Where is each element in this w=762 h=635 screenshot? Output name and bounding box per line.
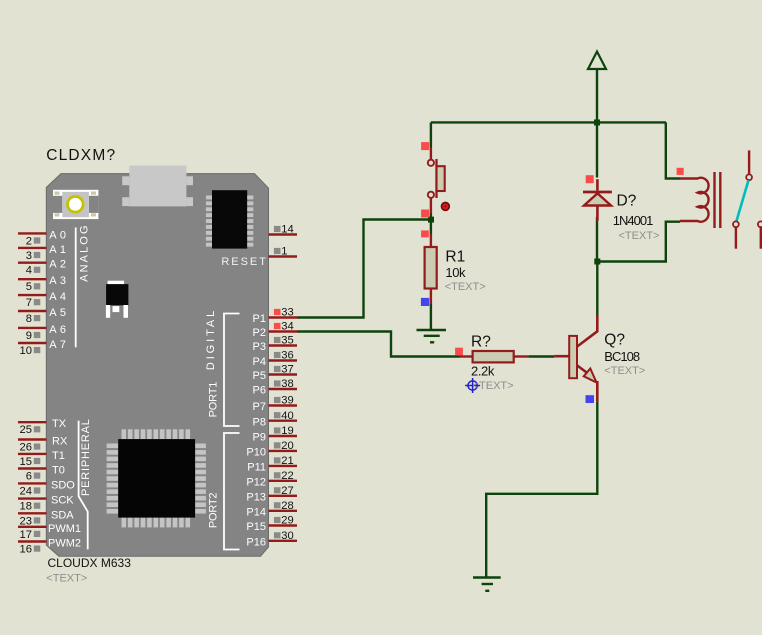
svg-text:SDO: SDO [51,479,75,491]
mcu pin P9 (pin 19) [269,435,298,437]
mcu qfp chip [122,429,127,439]
svg-text:2: 2 [26,235,32,247]
svg-text:T1: T1 [52,450,65,462]
svg-text:<TEXT>: <TEXT> [604,365,645,377]
svg-text:21: 21 [281,455,293,467]
wire rail to pot [430,122,432,147]
mcu pin A3 (pin 5) [18,278,47,280]
svg-text:A4: A4 [49,291,69,303]
mcu pin PWM2 (pin 16) [18,540,47,542]
mcu port1 bracket [224,314,240,427]
svg-text:RX: RX [52,436,68,448]
junction pot bottom [428,217,434,223]
svg-text:ANALOG: ANALOG [78,223,90,281]
svg-text:PORT1: PORT1 [208,382,220,418]
mcu pin P3 (pin 35) [269,344,298,346]
svg-text:<TEXT>: <TEXT> [46,573,87,585]
mcu regulator [108,281,125,285]
svg-text:1: 1 [281,246,287,258]
wire diode bottom [596,217,598,262]
mcu pin A2 (pin 4) [18,262,47,264]
svg-text:22: 22 [281,470,293,482]
svg-text:P8: P8 [253,416,266,428]
svg-text:PORT2: PORT2 [208,493,220,529]
svg-text:CLDXM?: CLDXM? [46,147,116,164]
svg-text:23: 23 [20,515,32,527]
svg-text:SCK: SCK [51,495,74,507]
svg-text:9: 9 [26,330,32,342]
svg-text:P13: P13 [246,491,266,503]
svg-text:PWM2: PWM2 [48,538,81,550]
svg-text:P11: P11 [247,462,266,474]
origin marker R? [465,378,480,393]
mcu analog separator [75,228,77,348]
mcu pin P14 (pin 28) [269,510,298,512]
relay contact common [748,150,750,174]
svg-text:37: 37 [281,364,293,376]
transistor Q? [577,316,597,347]
svg-text:DIGITAL: DIGITAL [205,308,217,370]
svg-text:A3: A3 [49,275,69,287]
wire pot junction to P1 [297,220,431,318]
svg-text:26: 26 [20,442,32,454]
svg-text:36: 36 [281,350,293,362]
mcu pin P2 (pin 34) [269,330,298,332]
wire pot bottom to R1 [430,213,432,235]
svg-text:24: 24 [20,485,32,497]
svg-text:27: 27 [281,485,293,497]
mcu pin 14 [269,233,298,235]
mcu usb connector [129,166,186,207]
svg-text:PWM1: PWM1 [48,523,81,535]
mcu port2 bracket [224,433,240,550]
ground below Q? emitter [473,576,501,578]
svg-text:P7: P7 [253,401,266,413]
svg-text:P14: P14 [246,506,266,518]
svg-text:CLOUDX M633: CLOUDX M633 [48,556,132,570]
svg-text:3: 3 [26,250,32,262]
mcu pin P5 (pin 37) [269,373,298,375]
svg-text:2.2k: 2.2k [471,364,495,379]
svg-text:33: 33 [281,307,293,319]
svg-text:<TEXT>: <TEXT> [473,380,514,392]
svg-text:A2: A2 [49,259,69,271]
svg-text:<TEXT>: <TEXT> [445,281,486,293]
svg-text:4: 4 [26,265,32,277]
svg-text:P12: P12 [246,476,266,488]
junction collector node [594,259,600,265]
svg-text:A0: A0 [49,229,69,241]
mcu pin P11 (pin 21) [269,465,298,467]
svg-text:Q?: Q? [604,331,625,348]
svg-text:<TEXT>: <TEXT> [619,230,660,242]
mcu pin SDA (pin 23) [18,512,47,514]
svg-text:P15: P15 [246,521,266,533]
svg-text:R?: R? [471,334,491,351]
svg-text:38: 38 [281,378,293,390]
diode D? [586,175,594,183]
mcu pin A5 (pin 8) [18,310,47,312]
svg-text:10: 10 [20,345,32,357]
mcu pin P4 (pin 36) [269,359,298,361]
wire R? to Q? base [528,355,554,357]
svg-text:14: 14 [281,224,293,236]
svg-text:30: 30 [281,530,293,542]
mcu U1 body [46,174,268,557]
wire R1 to ground [430,304,432,329]
wire top rail [431,121,666,123]
svg-text:34: 34 [281,321,293,333]
svg-text:T0: T0 [52,465,65,477]
svg-text:A5: A5 [49,307,69,319]
svg-text:BC108: BC108 [604,349,640,364]
mcu pin 1 [269,255,298,257]
svg-text:R1: R1 [445,249,465,266]
svg-text:28: 28 [281,500,293,512]
svg-text:P16: P16 [246,536,266,548]
mcu pin P1 (pin 33) [269,316,298,318]
svg-text:29: 29 [281,515,293,527]
svg-text:TX: TX [52,418,67,430]
wire collector node to relay [597,222,680,262]
wire diode top [596,122,598,177]
svg-text:P3: P3 [253,341,266,353]
svg-text:P6: P6 [253,385,266,397]
mcu pin P13 (pin 27) [269,495,298,497]
relay contact arm [737,180,749,221]
svg-text:P2: P2 [253,327,266,339]
wire collector node to Q? [596,262,598,317]
mcu pin SCK (pin 18) [18,497,47,499]
mcu pin P16 (pin 30) [269,540,298,542]
svg-text:16: 16 [20,544,32,556]
svg-text:20: 20 [281,440,293,452]
svg-text:P1: P1 [253,313,266,325]
mcu pin P7 (pin 39) [269,404,298,406]
svg-text:18: 18 [20,501,32,513]
relay coil [677,168,684,175]
svg-text:A7: A7 [49,339,69,351]
mcu pin T0 (pin 6) [18,467,47,469]
mcu pin P8 (pin 40) [269,420,298,422]
mcu pin SDO (pin 24) [18,482,47,484]
svg-text:PERIPHERAL: PERIPHERAL [80,418,92,496]
mcu pin T1 (pin 15) [18,453,47,455]
resistor R? [455,348,463,356]
mcu pin A6 (pin 9) [18,327,47,329]
relay contact NO [733,221,739,227]
resistor R1 [421,230,429,237]
svg-text:35: 35 [281,335,293,347]
svg-text:17: 17 [20,529,32,541]
svg-text:1N4001: 1N4001 [613,213,653,228]
svg-text:RESET: RESET [221,256,268,268]
svg-text:19: 19 [281,425,293,437]
svg-text:D?: D? [617,193,637,210]
mcu soic ic [212,190,247,248]
mcu pin A1 (pin 3) [18,247,47,249]
relay core [713,172,715,228]
svg-text:6: 6 [26,471,32,483]
svg-text:P10: P10 [246,447,266,459]
svg-text:P9: P9 [253,432,266,444]
potentiometer RV1 [421,142,429,150]
svg-text:A6: A6 [49,324,69,336]
svg-text:A1: A1 [49,244,69,256]
mcu pin RX (pin 26) [18,438,47,440]
svg-text:5: 5 [26,281,32,293]
wire rail to relay coil top [666,122,680,178]
svg-text:SDA: SDA [51,509,74,521]
mcu pin P12 (pin 22) [269,480,298,482]
svg-text:15: 15 [20,456,32,468]
relay contact NC [758,221,762,227]
svg-text:8: 8 [26,313,32,325]
mcu pin A4 (pin 7) [18,294,47,296]
svg-text:40: 40 [281,410,293,422]
svg-text:P5: P5 [253,370,266,382]
mcu reset button [53,190,98,219]
junction top rail / diode [594,120,600,126]
mcu peripheral separator [79,421,88,550]
mcu pin PWM1 (pin 17) [18,526,47,528]
ground below R1 [417,329,447,331]
mcu pin TX (pin 25) [18,421,47,423]
mcu pin P6 (pin 38) [269,388,298,390]
power terminal VCC [588,52,606,70]
mcu pin P15 (pin 29) [269,524,298,526]
mcu pin A7 (pin 10) [18,342,47,344]
mcu pin A0 (pin 2) [18,232,47,234]
svg-text:39: 39 [281,395,293,407]
svg-text:10k: 10k [445,265,466,280]
mcu pin P10 (pin 20) [269,450,298,452]
svg-text:P4: P4 [253,356,266,368]
wire P2 to R? base resistor [297,332,460,357]
svg-text:7: 7 [26,297,32,309]
wire emitter to ground [486,402,597,578]
svg-text:25: 25 [20,424,32,436]
